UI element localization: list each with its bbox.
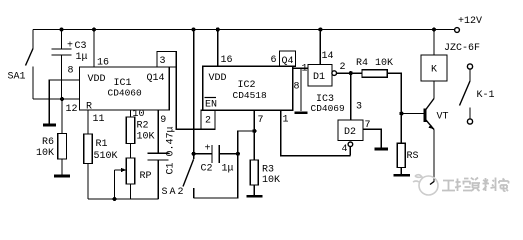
capacitor C1 <box>148 152 169 154</box>
node rail-K <box>432 28 436 32</box>
wire top +12V rail <box>33 29 455 31</box>
node +12V terminal circle <box>455 28 460 33</box>
resistor R4 <box>362 70 387 78</box>
svg-text:D1: D1 <box>313 72 325 83</box>
wire IC1 pin11 to R1 <box>87 110 89 134</box>
wire C2 right up to pin7 net <box>238 131 255 154</box>
svg-text:3: 3 <box>356 102 362 113</box>
node C2 left junction <box>192 152 196 156</box>
pin 2 stub EN <box>201 110 215 129</box>
svg-text:12: 12 <box>66 104 78 115</box>
wire D1 pin14 <box>319 30 321 65</box>
ground R6 <box>54 175 70 178</box>
wire IC1 pin10 to R2 <box>130 110 132 117</box>
svg-text:10K: 10K <box>36 148 54 159</box>
wire IC2 pin7 down <box>253 110 255 160</box>
wire IC1 pin8 to ground <box>49 80 79 124</box>
transistor VT <box>424 109 427 123</box>
pin 3 stub Q14 <box>157 52 176 68</box>
svg-text:EN: EN <box>205 100 217 111</box>
svg-text:SA1: SA1 <box>8 72 26 83</box>
svg-text:R1: R1 <box>96 139 108 150</box>
svg-text:RS: RS <box>407 151 419 162</box>
svg-text:Q4: Q4 <box>282 56 294 67</box>
op-amp D1 inverter box <box>308 65 332 87</box>
wire K to VT collector <box>433 81 435 99</box>
relay coil K box <box>421 55 447 81</box>
resistor R3 <box>250 160 258 185</box>
node D2 bubble <box>348 142 353 147</box>
switch SA1 <box>32 30 34 49</box>
svg-text:VDD: VDD <box>209 73 227 84</box>
svg-text:JZC-6F: JZC-6F <box>444 43 480 54</box>
svg-text:10: 10 <box>133 109 145 120</box>
resistor R6 <box>61 99 63 134</box>
svg-text:16: 16 <box>221 55 233 66</box>
svg-text:K: K <box>431 65 437 76</box>
svg-text:C3: C3 <box>75 41 87 52</box>
svg-text:C1 0.47μ: C1 0.47μ <box>166 126 177 174</box>
svg-text:+12V: +12V <box>458 16 482 27</box>
svg-text:11: 11 <box>93 114 105 125</box>
svg-text:1μ: 1μ <box>76 52 88 63</box>
wire D1 out to R4 <box>337 72 363 74</box>
op-amp D2 inverter box <box>338 120 363 141</box>
svg-text:7: 7 <box>365 120 371 131</box>
svg-text:R4: R4 <box>356 58 368 69</box>
svg-text:16: 16 <box>97 58 109 69</box>
watermark text 工控资料窝 drawn as gray strokes <box>442 178 509 192</box>
node reset junction <box>60 97 64 101</box>
wire IC2 Q4 to D1 pin1 <box>293 67 308 69</box>
svg-text:Q14: Q14 <box>147 73 165 84</box>
svg-text:K-1: K-1 <box>477 90 495 101</box>
wire +12V column to SA2 <box>193 30 195 160</box>
svg-text:10K: 10K <box>375 58 393 69</box>
node rail-SA2column <box>192 28 196 32</box>
svg-text:VDD: VDD <box>88 74 106 85</box>
svg-text:R2: R2 <box>137 121 149 132</box>
svg-text:2: 2 <box>340 62 346 73</box>
node D1 output bubble <box>332 71 337 76</box>
ground R3 <box>247 195 263 198</box>
svg-text:2: 2 <box>205 116 211 127</box>
watermark logo circle <box>413 175 438 195</box>
wire IC1 pin9 to C1 <box>157 110 159 153</box>
svg-text:R: R <box>86 102 92 113</box>
label IC2 EN overline <box>205 97 217 99</box>
svg-text:8: 8 <box>68 66 74 77</box>
wire Q14 pin3 to IC2 EN pin2 <box>176 67 201 129</box>
capacitor C3 <box>61 30 63 50</box>
svg-text:10K: 10K <box>262 175 280 186</box>
svg-text:R3: R3 <box>262 165 274 176</box>
wire IC2 pin8 ground <box>300 68 302 111</box>
node rail-IC2pin16 <box>216 28 220 32</box>
resistor R2 <box>126 117 135 144</box>
resistor RS <box>400 114 402 144</box>
svg-text:1: 1 <box>302 64 308 75</box>
svg-text:+: + <box>205 144 211 155</box>
wire D2 pin7 ground <box>363 129 381 147</box>
wire D2 pin3 input <box>350 73 352 120</box>
svg-text:7: 7 <box>258 115 264 126</box>
wire VT emitter down <box>433 130 435 183</box>
ground D2 pin7 <box>375 148 389 151</box>
svg-text:1: 1 <box>283 115 289 126</box>
node rail-IC1pin16 <box>92 28 96 32</box>
svg-text:3: 3 <box>160 56 166 67</box>
node rail-D1pin14 <box>318 28 322 32</box>
svg-text:510K: 510K <box>94 151 118 162</box>
wire D2 pin4 bubble drop <box>349 147 351 156</box>
op-amp IC2 box CD4518 <box>203 66 293 110</box>
switch SA2 <box>183 159 194 186</box>
pin 6 stub Q4 <box>280 51 296 66</box>
svg-text:D2: D2 <box>344 127 356 138</box>
RP wiper arrow <box>115 169 124 171</box>
svg-text:CD4518: CD4518 <box>233 90 268 101</box>
node D1out-D2in <box>349 71 353 75</box>
node pin7-R3 <box>252 129 256 133</box>
ground RS <box>394 174 411 177</box>
svg-text:10K: 10K <box>137 132 155 143</box>
svg-text:SA2: SA2 <box>162 187 186 198</box>
svg-text:CD4069: CD4069 <box>311 103 346 114</box>
wire R4 to VT base <box>387 73 425 113</box>
node C2 right junction <box>236 152 240 156</box>
svg-text:CD4060: CD4060 <box>108 88 143 99</box>
svg-text:+: + <box>67 41 73 52</box>
svg-text:14: 14 <box>322 51 334 62</box>
wire IC2 pin16 <box>217 30 219 67</box>
ground pin8 IC2 <box>295 111 308 114</box>
resistor R1 <box>84 134 93 164</box>
ground pin8 <box>43 124 56 127</box>
wire timing node bottom <box>88 198 158 200</box>
svg-text:9: 9 <box>160 115 166 126</box>
op-amp IC1 box CD4060 <box>80 67 170 110</box>
potentiometer RP <box>126 158 135 184</box>
svg-text:VT: VT <box>437 112 449 123</box>
svg-text:R6: R6 <box>42 137 54 148</box>
svg-text:4: 4 <box>342 144 348 155</box>
svg-text:C2: C2 <box>201 164 213 175</box>
node rail-C3 <box>60 28 64 32</box>
wire SA2 bottom to C2 right <box>194 154 238 198</box>
wire IC2 pin1 to D2 out <box>281 110 348 155</box>
svg-text:1μ: 1μ <box>222 164 234 175</box>
relay contact K-1 <box>467 64 472 69</box>
node base-RS <box>399 112 403 116</box>
wire IC1 pin16 <box>93 30 95 68</box>
svg-text:8: 8 <box>294 82 300 93</box>
capacitor C2 <box>194 153 212 155</box>
wire SA1 to IC1 pin12 <box>33 98 80 100</box>
svg-text:RP: RP <box>140 171 152 182</box>
svg-text:6: 6 <box>271 55 277 66</box>
node wiper-bottom <box>113 197 117 201</box>
wire rail to K <box>433 30 435 56</box>
